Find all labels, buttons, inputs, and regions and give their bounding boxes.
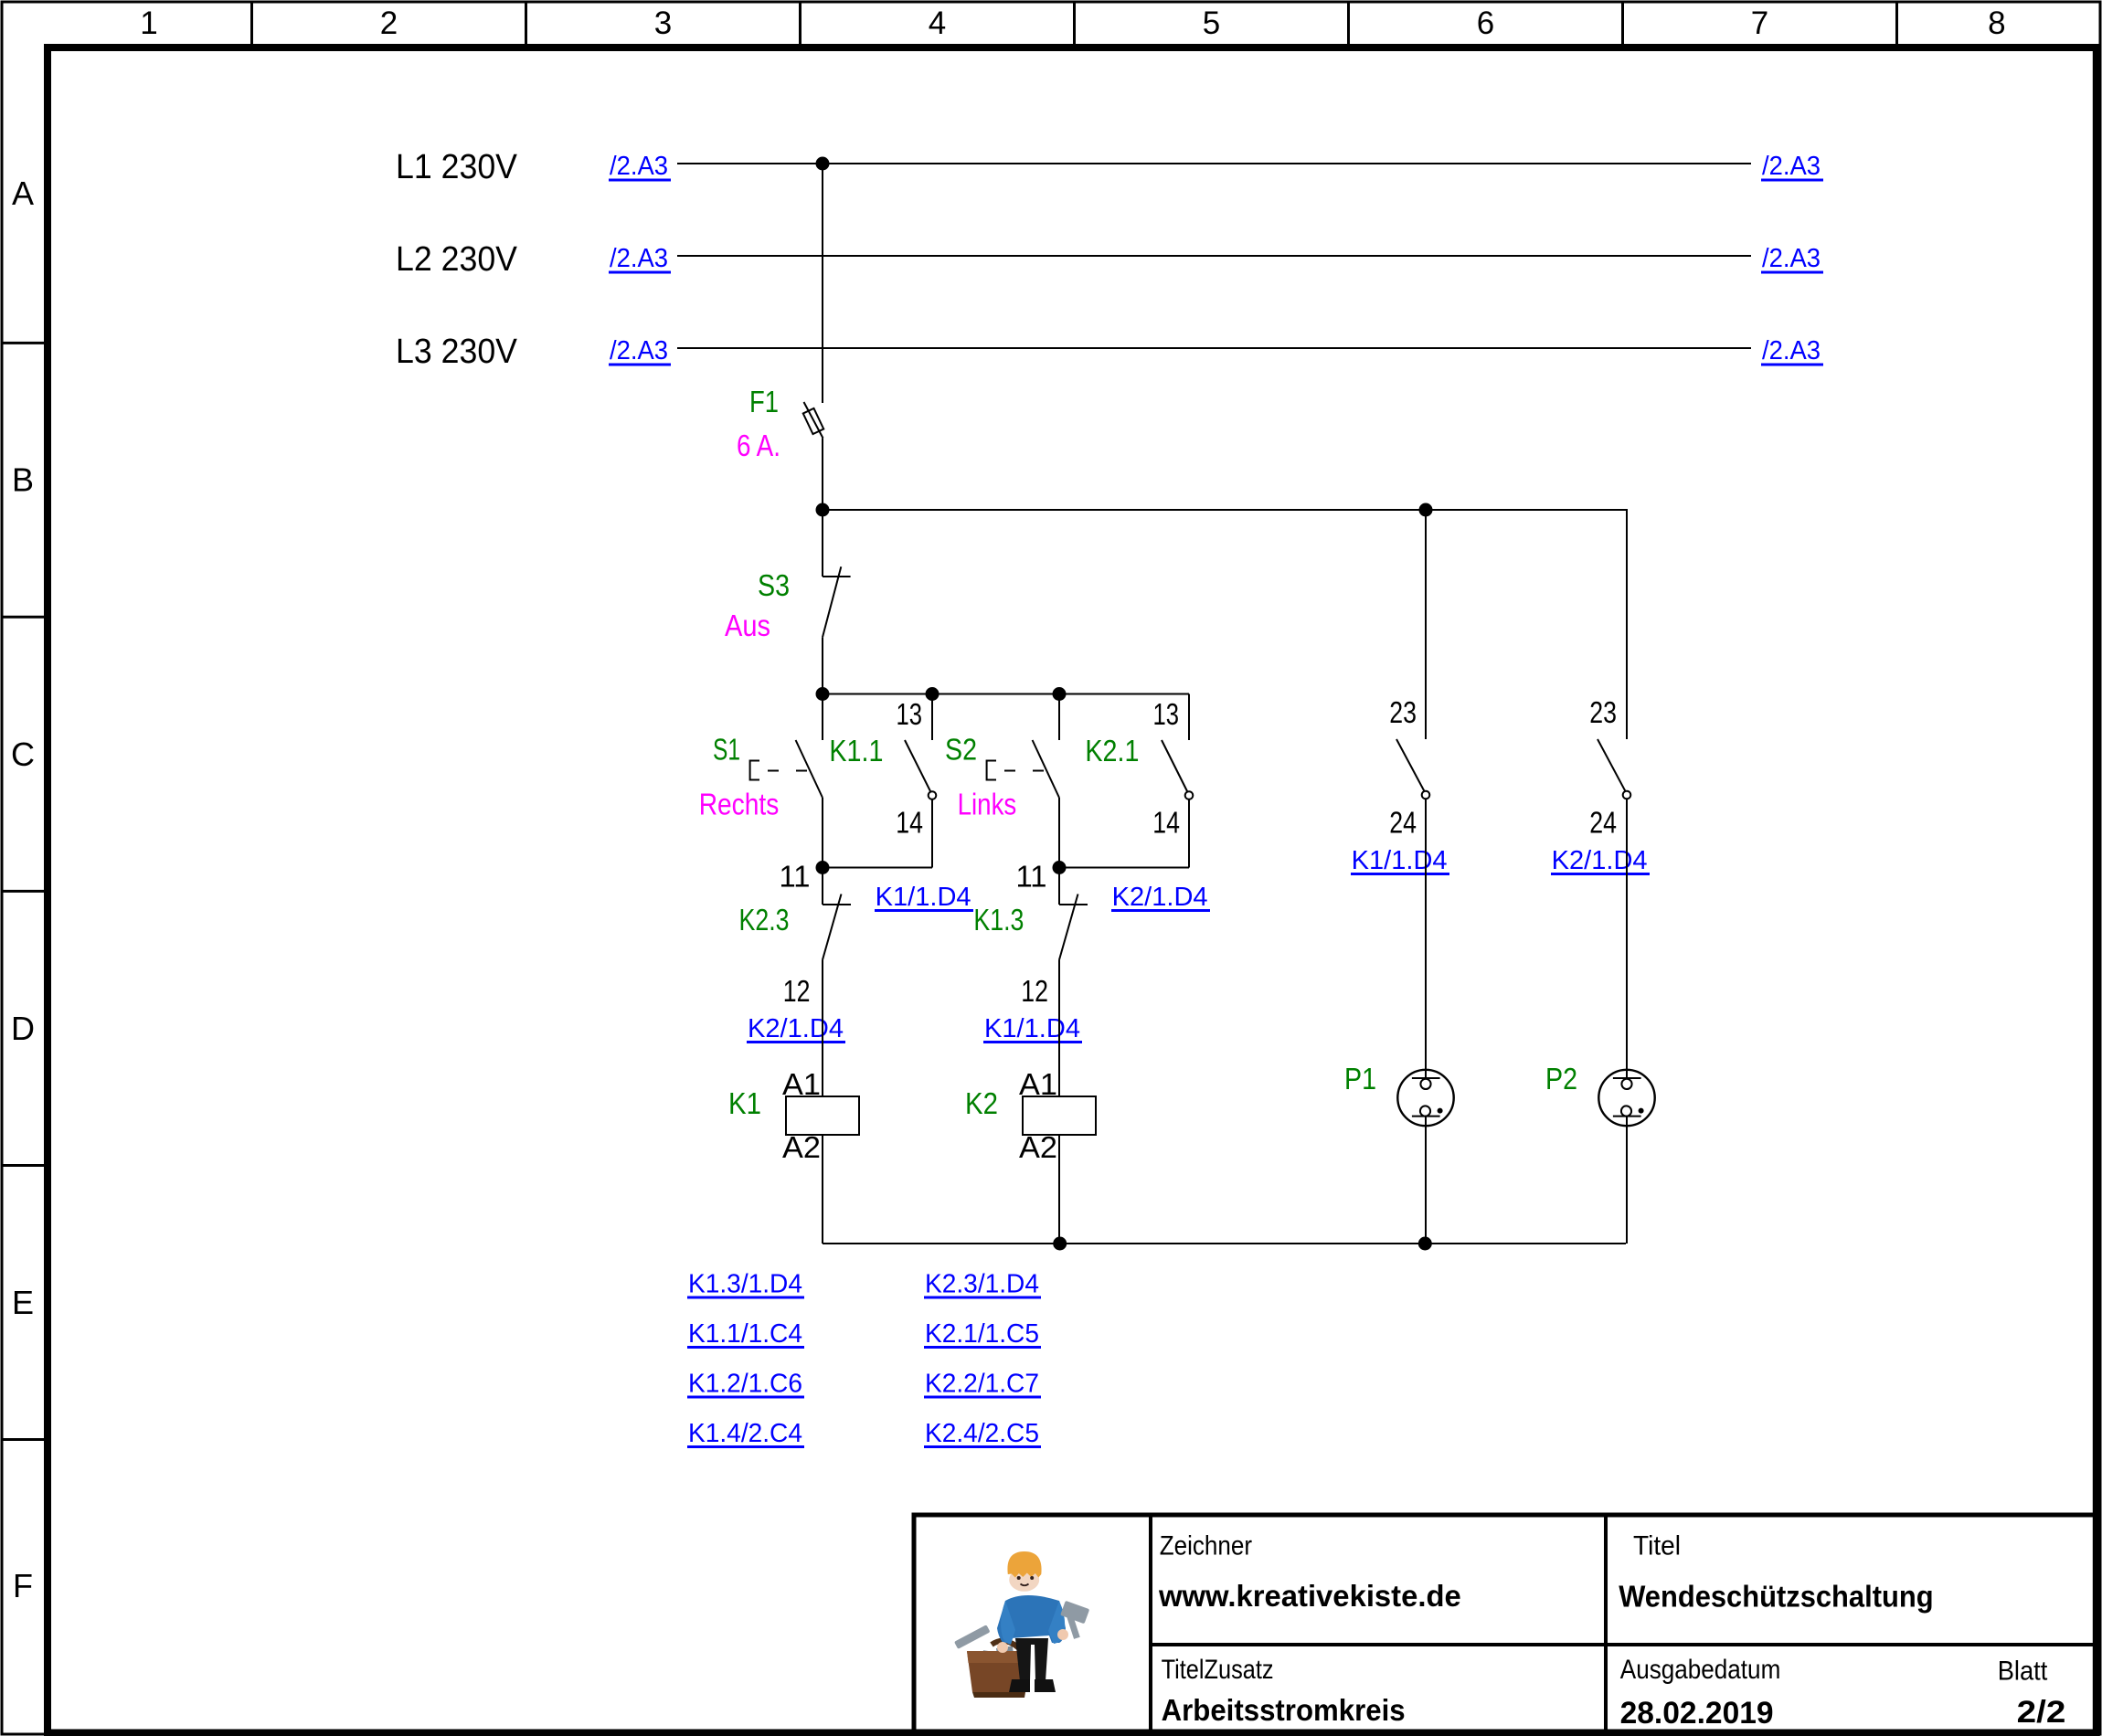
playmobil figure toolbox tools xyxy=(954,1625,1014,1672)
node mid bus K1.1 xyxy=(926,687,940,701)
svg-text:C: C xyxy=(11,736,35,773)
pushbutton S2 (NO) with actuator xyxy=(987,740,1059,798)
svg-text:14: 14 xyxy=(1152,806,1180,840)
svg-text:/2.A3: /2.A3 xyxy=(1762,244,1821,273)
wire contact to lamp P2 xyxy=(1626,799,1628,1079)
svg-text:K1.3: K1.3 xyxy=(973,903,1024,937)
cross-reference /2.A3 left of L2 xyxy=(609,244,671,273)
svg-text:L1 230V: L1 230V xyxy=(396,148,518,186)
svg-text:K2.1: K2.1 xyxy=(1085,734,1139,767)
lamp P2 xyxy=(1598,1070,1654,1126)
node bottom bus P1 xyxy=(1418,1237,1432,1251)
cross-reference K2.1/1.C5 xyxy=(924,1319,1041,1349)
svg-text:Titel: Titel xyxy=(1633,1531,1681,1561)
cross-reference K2/1.D4 (P2 branch) xyxy=(1551,846,1650,875)
svg-text:K1.1/1.C4: K1.1/1.C4 xyxy=(688,1319,802,1349)
wire S3 to mid bus xyxy=(822,638,823,694)
svg-text:Rechts: Rechts xyxy=(699,787,780,820)
svg-text:K2.4/2.C5: K2.4/2.C5 xyxy=(925,1419,1039,1448)
wire S1 to node xyxy=(822,798,823,868)
wire K1.1 to link xyxy=(931,799,933,868)
svg-text:www.kreativekiste.de: www.kreativekiste.de xyxy=(1158,1579,1461,1613)
svg-text:K2/1.D4: K2/1.D4 xyxy=(1552,846,1648,875)
svg-text:F1: F1 xyxy=(749,385,779,418)
svg-text:14: 14 xyxy=(896,806,923,840)
svg-text:K1.2/1.C6: K1.2/1.C6 xyxy=(688,1370,802,1399)
svg-text:/2.A3: /2.A3 xyxy=(610,152,668,181)
svg-text:TitelZusatz: TitelZusatz xyxy=(1162,1655,1274,1685)
node under S2 xyxy=(1053,861,1067,874)
svg-text:P1: P1 xyxy=(1344,1062,1376,1096)
wire K2.1 to link xyxy=(1188,799,1190,868)
svg-text:B: B xyxy=(12,461,34,499)
cross-reference K2/1.D4 (K2.1) xyxy=(1111,883,1210,912)
cross-reference K2.3/1.D4 xyxy=(924,1270,1041,1299)
cross-reference K1/1.D4 (K1.1) xyxy=(875,883,973,912)
svg-text:3: 3 xyxy=(654,5,672,41)
svg-text:K1: K1 xyxy=(728,1086,761,1120)
playmobil figure legs xyxy=(1009,1638,1056,1692)
svg-text:A1: A1 xyxy=(782,1067,821,1101)
svg-text:K2.3: K2.3 xyxy=(739,903,790,937)
wire coil K1 to bottom bus xyxy=(822,1135,823,1244)
svg-text:12: 12 xyxy=(1021,974,1048,1008)
node top bus xyxy=(816,503,830,517)
node mid bus S1 xyxy=(816,687,830,701)
node top bus P1 branch xyxy=(1419,503,1433,517)
playmobil figure hammer xyxy=(1060,1601,1089,1639)
svg-text:E: E xyxy=(12,1284,34,1321)
svg-text:Ausgabedatum: Ausgabedatum xyxy=(1620,1655,1781,1685)
pushbutton S1 (NO) with actuator xyxy=(750,740,823,798)
wire contact to lamp P1 xyxy=(1425,799,1427,1079)
wire S2 to node xyxy=(1058,798,1060,868)
cross-reference K2/1.D4 (K2.3) xyxy=(747,1014,845,1043)
fuse F1 xyxy=(803,402,823,439)
cross-reference /2.A3 right of L2 xyxy=(1761,244,1823,273)
wire stub to K1.4 contact xyxy=(1425,510,1427,739)
playmobil figure toolbox xyxy=(967,1641,1028,1698)
wire stub to S2 xyxy=(1058,694,1060,741)
svg-text:K1/1.D4: K1/1.D4 xyxy=(1352,846,1448,875)
cross-reference K2.4/2.C5 xyxy=(924,1419,1041,1448)
coil K1 xyxy=(786,1096,859,1135)
wire top bus xyxy=(823,510,1627,739)
svg-text:A2: A2 xyxy=(782,1130,821,1164)
wire stub to K2.1 xyxy=(1188,694,1190,741)
svg-text:P2: P2 xyxy=(1545,1062,1577,1096)
cross-reference K2.2/1.C7 xyxy=(924,1370,1041,1399)
wire L2 xyxy=(677,255,1751,257)
svg-text:L3 230V: L3 230V xyxy=(396,333,518,371)
contact K2.1 (NO) xyxy=(1162,740,1193,799)
svg-text:/2.A3: /2.A3 xyxy=(610,336,668,365)
svg-text:/2.A3: /2.A3 xyxy=(1762,152,1821,181)
contact K2.4 (NO) xyxy=(1598,739,1630,799)
coil K2 xyxy=(1023,1096,1096,1135)
playmobil figure torso xyxy=(997,1595,1068,1653)
svg-text:S3: S3 xyxy=(758,568,790,602)
wire fuse to S3 xyxy=(822,439,823,577)
svg-text:K2.3/1.D4: K2.3/1.D4 xyxy=(925,1270,1039,1299)
svg-text:A: A xyxy=(12,175,34,212)
svg-text:Wendeschützschaltung: Wendeschützschaltung xyxy=(1619,1580,1933,1614)
svg-text:Arbeitsstromkreis: Arbeitsstromkreis xyxy=(1162,1693,1406,1727)
wire coil K2 to bottom bus xyxy=(1058,1135,1060,1244)
svg-text:23: 23 xyxy=(1589,695,1617,729)
svg-text:6 A.: 6 A. xyxy=(737,429,780,462)
svg-text:4: 4 xyxy=(929,5,946,41)
cross-reference K1.1/1.C4 xyxy=(687,1319,804,1349)
svg-text:5: 5 xyxy=(1203,5,1220,41)
svg-text:13: 13 xyxy=(897,697,923,731)
svg-text:K1/1.D4: K1/1.D4 xyxy=(876,883,971,912)
lamp P1 xyxy=(1397,1070,1453,1126)
svg-text:/2.A3: /2.A3 xyxy=(1762,336,1821,365)
contact K2.3 (NC) xyxy=(823,894,851,960)
wire link K2.1 to S2 node xyxy=(1059,867,1189,869)
svg-text:8: 8 xyxy=(1988,5,2005,41)
svg-text:2/2: 2/2 xyxy=(2017,1695,2066,1730)
svg-text:A1: A1 xyxy=(1019,1067,1057,1101)
svg-text:12: 12 xyxy=(783,974,811,1008)
svg-text:13: 13 xyxy=(1153,697,1180,731)
wire lamp P2 to bottom bus xyxy=(1626,1117,1628,1244)
svg-text:11: 11 xyxy=(780,860,811,894)
contact K1.1 (NO) xyxy=(905,740,936,799)
wire lamp P1 to bottom bus xyxy=(1425,1117,1427,1244)
svg-text:K2.2/1.C7: K2.2/1.C7 xyxy=(925,1370,1039,1399)
cross-reference K1/1.D4 (K1.3) xyxy=(983,1014,1082,1043)
contact K1.3 (NC) xyxy=(1059,894,1088,960)
wire mid bus xyxy=(823,693,1189,695)
node on L1 at main branch xyxy=(816,157,830,171)
svg-text:23: 23 xyxy=(1389,695,1417,729)
contact K1.4 (NO) xyxy=(1396,739,1429,799)
svg-text:7: 7 xyxy=(1751,5,1768,41)
svg-text:Zeichner: Zeichner xyxy=(1160,1531,1252,1561)
node bottom bus K2 xyxy=(1053,1237,1067,1251)
TITLE BLOCK xyxy=(914,1515,2097,1733)
wire stub to S1 xyxy=(822,694,823,741)
svg-text:S2: S2 xyxy=(945,733,977,767)
cross-reference /2.A3 right of L1 xyxy=(1761,152,1823,181)
svg-text:K2.1/1.C5: K2.1/1.C5 xyxy=(925,1319,1039,1349)
wire L1 to fuse xyxy=(822,164,823,403)
wire node to K2.3 xyxy=(822,868,823,905)
wire bottom bus xyxy=(823,1243,1626,1244)
cross-reference K1/1.D4 (P1 branch) xyxy=(1351,846,1449,875)
svg-text:Links: Links xyxy=(958,787,1017,820)
svg-text:Aus: Aus xyxy=(725,609,770,642)
svg-text:K1.4/2.C4: K1.4/2.C4 xyxy=(688,1419,802,1448)
cross-reference K1.2/1.C6 xyxy=(687,1370,804,1399)
svg-text:24: 24 xyxy=(1589,806,1617,840)
svg-text:K1.1: K1.1 xyxy=(829,734,883,767)
svg-text:28.02.2019: 28.02.2019 xyxy=(1620,1696,1774,1731)
wire node to K1.3 xyxy=(1058,868,1060,905)
wire link K1.1 to S1 node xyxy=(823,867,932,869)
svg-text:1: 1 xyxy=(140,5,157,41)
svg-text:11: 11 xyxy=(1016,860,1047,894)
svg-text:K1/1.D4: K1/1.D4 xyxy=(984,1014,1080,1043)
node mid bus S2 xyxy=(1053,687,1067,701)
wire stub to K1.1 xyxy=(931,694,933,741)
svg-text:Blatt: Blatt xyxy=(1998,1657,2048,1687)
svg-text:L2 230V: L2 230V xyxy=(396,240,518,279)
svg-text:2: 2 xyxy=(380,5,398,41)
svg-text:S1: S1 xyxy=(713,733,740,767)
svg-text:D: D xyxy=(11,1010,35,1047)
svg-text:K2/1.D4: K2/1.D4 xyxy=(748,1014,844,1043)
wire K1.3 to coil K2 xyxy=(1058,960,1060,1097)
cross-reference /2.A3 left of L3 xyxy=(609,336,671,365)
cross-reference /2.A3 left of L1 xyxy=(609,152,671,181)
cross-reference K1.3/1.D4 xyxy=(687,1270,804,1299)
svg-text:A2: A2 xyxy=(1019,1130,1057,1164)
wire L1 xyxy=(677,163,1751,164)
cross-reference /2.A3 right of L3 xyxy=(1761,336,1823,365)
playmobil figure head xyxy=(1007,1551,1041,1592)
wire K2.3 to coil K1 xyxy=(822,960,823,1097)
cross-reference K1.4/2.C4 xyxy=(687,1419,804,1448)
svg-text:K2: K2 xyxy=(965,1086,998,1120)
svg-text:6: 6 xyxy=(1477,5,1494,41)
switch S3 (NC, opener) xyxy=(823,566,851,638)
svg-text:K2/1.D4: K2/1.D4 xyxy=(1112,883,1208,912)
svg-text:K1.3/1.D4: K1.3/1.D4 xyxy=(688,1270,802,1299)
svg-text:24: 24 xyxy=(1389,806,1417,840)
svg-text:F: F xyxy=(13,1567,33,1604)
svg-text:/2.A3: /2.A3 xyxy=(610,244,668,273)
wire L3 xyxy=(677,347,1751,349)
node under S1 xyxy=(816,861,830,874)
